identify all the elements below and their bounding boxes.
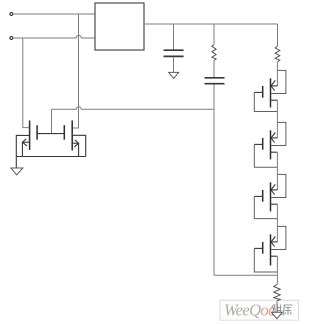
ground G2 — [11, 168, 23, 175]
transistor M6 — [254, 226, 286, 272]
wire terminal IN2 to block U1 with hop over vertical — [13, 35, 95, 38]
capacitor C1 lead — [173, 24, 175, 50]
wire terminal IN1 to block U1 left pin — [13, 13, 95, 15]
wire top rail corner into R1 — [277, 24, 279, 46]
wire ground stem — [15, 157, 17, 168]
wire M5 source to M6 — [276, 204, 278, 242]
ground G3 — [271, 312, 282, 319]
wire M6 source to bottom bus — [276, 256, 278, 275]
transistor M3 — [254, 70, 286, 111]
wire R3 to ground — [276, 301, 278, 312]
wire C2 bottom long drop to bottom bus — [213, 85, 215, 276]
wire M4 source to M5 — [276, 152, 278, 190]
capacitor C1 — [164, 50, 184, 56]
resistor R3 — [274, 284, 280, 300]
transistor M1 — [16, 120, 64, 156]
wire node B drop M1 drain — [23, 38, 30, 128]
block U1 — [95, 3, 144, 50]
wire bus to R3 — [276, 275, 278, 284]
svg-text:WeeQoo: WeeQoo — [224, 301, 276, 320]
resistor R1 — [275, 46, 280, 62]
transistor M2 — [64, 120, 85, 156]
wire branch R2 top — [213, 24, 215, 45]
ground G1 — [169, 72, 179, 78]
terminal IN1 — [10, 13, 13, 16]
wire M3 source to M4 — [276, 100, 278, 138]
wire gate riser — [51, 109, 53, 133]
capacitor C2 — [205, 78, 225, 84]
wire gate bus of current mirror with hop — [52, 107, 215, 109]
transistor M4 — [254, 122, 286, 167]
terminal IN2 — [10, 37, 13, 40]
wire node A drop M2 drain — [72, 14, 78, 128]
wire bottom bus — [214, 274, 277, 276]
wire mirror bottom bus — [16, 156, 85, 158]
wire R2 to C2 — [213, 61, 215, 78]
transistor M5 — [254, 174, 286, 218]
resistor R2 — [212, 45, 216, 61]
watermark text CJK 维库 — [271, 304, 292, 316]
wire U1 output top rail — [144, 23, 278, 25]
watermark box — [220, 300, 299, 320]
capacitor C1 bottom lead — [173, 57, 175, 72]
wire R1 to M3 drain — [276, 62, 278, 86]
